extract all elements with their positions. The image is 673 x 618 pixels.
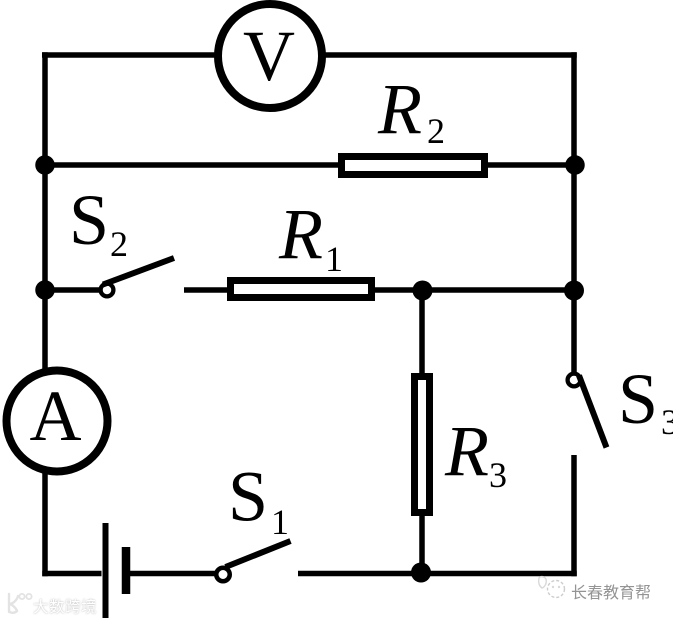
wire R3 branch upper <box>419 290 425 376</box>
watermark bottom-right text <box>571 579 651 603</box>
switch S1 pivot circle <box>216 568 230 582</box>
ammeter A circle <box>7 371 108 472</box>
svg-text:1: 1 <box>325 239 343 279</box>
switch S1 lever <box>226 541 291 567</box>
node dot bottom <box>411 563 431 583</box>
svg-text:3: 3 <box>489 455 507 495</box>
node dot row2 left <box>35 155 55 175</box>
switch S3 lever <box>579 376 607 448</box>
wire top right segment <box>322 52 577 58</box>
node dot row2 right <box>565 155 585 175</box>
wire right vertical upper <box>571 52 577 372</box>
battery long plate <box>103 523 109 618</box>
svg-text:2: 2 <box>427 111 445 151</box>
resistor R2 box <box>342 157 485 175</box>
svg-text:R: R <box>377 69 422 149</box>
switch S2 pivot circle <box>101 284 114 297</box>
wire top left segment <box>42 52 220 58</box>
wire row3 left stub <box>42 287 100 293</box>
wire battery to S1 <box>130 571 215 577</box>
wire row3 right segment <box>371 287 577 293</box>
switch S2 lever <box>103 258 174 285</box>
svg-text:3: 3 <box>661 402 673 442</box>
node dot row3 right <box>564 281 584 301</box>
switch S3 pivot circle <box>568 374 581 387</box>
resistor R1 box <box>231 281 372 298</box>
wire left vertical upper <box>42 52 48 371</box>
wire bottom left segment <box>42 571 101 577</box>
watermark bottom-left logo <box>4 592 34 616</box>
svg-text:A: A <box>30 376 82 456</box>
svg-text:R: R <box>444 411 489 491</box>
svg-text:S: S <box>228 457 268 537</box>
svg-text:1: 1 <box>271 502 289 542</box>
resistor R3 box <box>415 377 430 513</box>
wire row3 mid stub <box>184 287 232 293</box>
watermark bottom-left text <box>33 595 97 617</box>
svg-text:S: S <box>618 359 658 439</box>
svg-text:S: S <box>69 180 109 260</box>
wire row2 horizontal <box>42 162 577 168</box>
wire R3 branch lower <box>419 513 425 574</box>
voltmeter U-V circle <box>218 4 322 108</box>
node dot row3 middle <box>413 281 433 301</box>
wire bottom right segment <box>298 571 577 577</box>
watermark bottom-right logo <box>535 574 569 602</box>
svg-text:R: R <box>278 194 323 274</box>
battery short plate <box>122 547 131 594</box>
wire left vertical lower <box>42 472 48 576</box>
svg-text:2: 2 <box>110 224 128 264</box>
svg-text:V: V <box>243 16 295 96</box>
node dot row3 left <box>35 280 55 300</box>
wire right vertical lower <box>571 455 577 576</box>
